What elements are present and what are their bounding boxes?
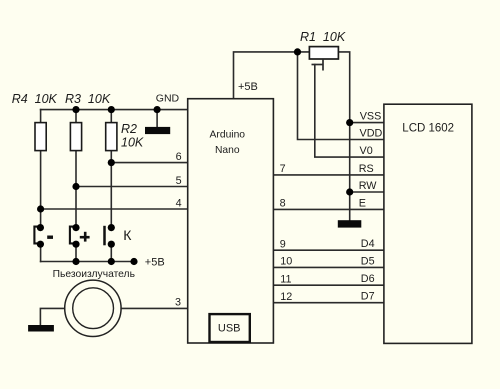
wire column R3 — [75, 110, 77, 228]
ground symbol near LCD E pin — [338, 220, 362, 227]
svg-text:RS: RS — [359, 163, 374, 175]
wire RS pin7 — [273, 174, 384, 176]
wire piezo right pin3 — [121, 307, 188, 309]
svg-text:GND: GND — [156, 93, 180, 105]
wire D7 pin12 — [273, 302, 384, 304]
node +5B rail end — [130, 258, 137, 265]
svg-text:USB: USB — [218, 323, 241, 335]
ground symbol piezo — [28, 325, 54, 332]
svg-text:D7: D7 — [361, 291, 375, 303]
svg-text:3: 3 — [175, 297, 181, 309]
node pin4 R4 — [37, 205, 44, 212]
wire +5B vertical to Arduino top — [234, 52, 310, 99]
svg-text:LCD 1602: LCD 1602 — [402, 122, 454, 134]
wire button1 bottom — [40, 244, 42, 261]
node pin6 R2 — [108, 159, 115, 166]
svg-text:E: E — [359, 197, 366, 209]
label plus button horizontal — [80, 236, 90, 239]
resistor R1 wiper symbol — [312, 59, 324, 71]
svg-text:D4: D4 — [361, 238, 375, 250]
node GND rail R2 — [108, 106, 115, 113]
resistor R1 (potentiometer) body — [309, 47, 338, 59]
node SB2 contacts — [72, 224, 79, 231]
svg-text:R2: R2 — [121, 122, 137, 136]
svg-text:К: К — [123, 227, 132, 243]
svg-text:VDD: VDD — [360, 127, 383, 139]
wire column R4 — [40, 110, 42, 228]
svg-text:Nano: Nano — [215, 145, 240, 156]
svg-text:6: 6 — [176, 151, 182, 163]
wire R1 wiper to V0 — [315, 65, 384, 158]
resistor R2 body — [106, 123, 117, 151]
node GND rail R3 — [72, 106, 79, 113]
svg-text:D5: D5 — [361, 255, 375, 267]
svg-text:10: 10 — [280, 256, 292, 268]
piezo buzzer outer circle — [65, 280, 121, 336]
node GND rail symbol — [154, 106, 161, 113]
wire VDD from R1 left junction — [298, 52, 384, 140]
pushbutton SB2 plus actuator — [70, 227, 74, 244]
svg-text:+5В: +5В — [145, 257, 165, 269]
node SB1 contacts — [37, 224, 44, 231]
wire RW — [350, 191, 384, 193]
wire +5B bottom rail — [41, 261, 134, 263]
pushbutton SB3 K actuator — [103, 226, 106, 246]
node RW gnd — [346, 188, 353, 195]
node +5B rail SB3 — [108, 258, 115, 265]
svg-text:11: 11 — [280, 274, 291, 286]
ground symbol top (GND) — [145, 127, 170, 134]
wire button3 bottom — [110, 244, 112, 261]
wire button2 bottom — [75, 244, 77, 261]
svg-text:12: 12 — [280, 291, 292, 303]
node SB3 contacts — [108, 224, 115, 231]
wire pin4 — [41, 208, 188, 210]
svg-text:4: 4 — [176, 197, 182, 209]
label minus button — [47, 236, 53, 239]
svg-text:8: 8 — [280, 198, 286, 210]
svg-text:Arduino: Arduino — [210, 129, 246, 140]
Arduino Nano box U1 — [188, 99, 274, 343]
wire column R2 — [110, 110, 112, 228]
svg-text:+5В: +5В — [238, 81, 258, 93]
wire pin5 — [76, 186, 188, 188]
wire E pin8 — [273, 208, 384, 210]
svg-text:Пьезоизлучатель: Пьезоизлучатель — [53, 269, 135, 280]
svg-text:10K: 10K — [121, 135, 144, 149]
svg-text:D6: D6 — [361, 273, 375, 285]
svg-text:5: 5 — [176, 175, 182, 187]
USB box — [210, 314, 250, 342]
label plus button vertical — [84, 232, 87, 242]
wire pin6 — [111, 162, 187, 164]
LCD 1602 box — [384, 104, 472, 343]
wire D5 pin10 — [273, 266, 384, 268]
svg-text:9: 9 — [280, 239, 286, 251]
node VSS gnd — [346, 119, 353, 126]
pushbutton SB1 minus actuator — [34, 227, 38, 244]
wire piezo left to ground — [40, 308, 64, 325]
wire R1 right terminal down to ground — [338, 52, 349, 221]
piezo buzzer inner circle — [73, 288, 114, 329]
svg-text:R4 10K: R4 10K — [12, 92, 58, 106]
node R1 left / +5B — [294, 48, 301, 55]
svg-text:VSS: VSS — [360, 111, 382, 123]
wire D4 pin9 — [273, 249, 384, 251]
wire VSS — [350, 122, 384, 124]
svg-text:R3 10K: R3 10K — [65, 92, 111, 106]
resistor R3 body — [70, 123, 81, 151]
node pin5 R3 — [72, 183, 79, 190]
resistor R4 body — [35, 123, 46, 151]
svg-text:RW: RW — [359, 180, 378, 192]
wire GND symbol stub — [156, 110, 158, 128]
svg-text:R1 10K: R1 10K — [300, 30, 346, 44]
node +5B rail SB2 — [72, 258, 79, 265]
wire D6 pin11 — [273, 284, 384, 286]
svg-text:V0: V0 — [360, 145, 373, 157]
svg-text:7: 7 — [280, 163, 286, 175]
wire GND rail — [41, 109, 188, 111]
